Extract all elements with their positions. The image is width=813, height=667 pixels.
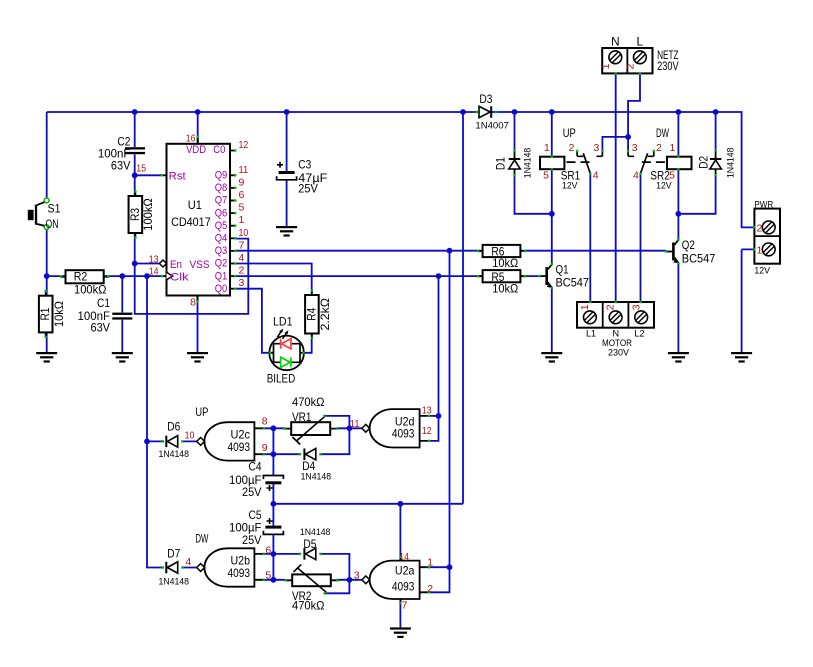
svg-text:11: 11 xyxy=(350,418,360,430)
svg-text:BC547: BC547 xyxy=(682,252,716,266)
svg-text:DW: DW xyxy=(195,532,208,546)
svg-text:2: 2 xyxy=(605,304,617,310)
svg-text:5: 5 xyxy=(669,169,675,181)
svg-text:10kΩ: 10kΩ xyxy=(492,256,518,270)
svg-text:BC547: BC547 xyxy=(556,276,590,290)
svg-text:S1: S1 xyxy=(48,202,61,216)
svg-text:5: 5 xyxy=(543,169,549,181)
svg-text:Q0: Q0 xyxy=(215,283,228,295)
svg-text:7: 7 xyxy=(402,600,408,612)
svg-text:Q7: Q7 xyxy=(215,195,228,207)
svg-text:R4: R4 xyxy=(304,307,318,320)
svg-text:2: 2 xyxy=(239,265,245,277)
svg-text:Q1: Q1 xyxy=(215,270,228,282)
svg-text:4: 4 xyxy=(185,556,191,568)
svg-text:10kΩ: 10kΩ xyxy=(492,281,518,295)
svg-text:L: L xyxy=(637,34,644,48)
svg-text:6: 6 xyxy=(239,189,245,201)
svg-text:1N4148: 1N4148 xyxy=(159,576,190,586)
svg-text:12V: 12V xyxy=(754,265,770,275)
svg-text:UP: UP xyxy=(563,126,576,140)
svg-text:Q2: Q2 xyxy=(215,258,228,270)
svg-text:100kΩ: 100kΩ xyxy=(141,198,155,231)
svg-text:14: 14 xyxy=(149,265,159,277)
svg-text:13: 13 xyxy=(422,405,432,417)
svg-text:16: 16 xyxy=(186,132,196,144)
svg-text:5: 5 xyxy=(265,570,271,582)
svg-text:10: 10 xyxy=(185,429,195,441)
svg-text:U2a: U2a xyxy=(395,563,415,577)
svg-text:2: 2 xyxy=(757,222,763,234)
svg-text:3: 3 xyxy=(632,142,638,154)
svg-text:LD1: LD1 xyxy=(273,314,293,328)
svg-text:D3: D3 xyxy=(479,92,492,106)
svg-text:DW: DW xyxy=(656,126,669,140)
svg-text:15: 15 xyxy=(136,163,146,175)
svg-text:En: En xyxy=(170,259,182,271)
svg-text:7: 7 xyxy=(239,239,245,251)
svg-text:5: 5 xyxy=(239,202,245,214)
svg-text:3: 3 xyxy=(594,142,600,154)
svg-text:1N4148: 1N4148 xyxy=(523,148,533,179)
svg-text:1: 1 xyxy=(427,557,433,569)
svg-text:1: 1 xyxy=(239,214,245,226)
svg-text:12V: 12V xyxy=(656,181,672,191)
svg-text:1N4007: 1N4007 xyxy=(475,121,509,131)
svg-text:U1: U1 xyxy=(188,198,202,212)
svg-text:BILED: BILED xyxy=(267,371,296,385)
svg-text:230V: 230V xyxy=(657,59,679,73)
svg-text:9: 9 xyxy=(262,442,268,454)
svg-text:VDD: VDD xyxy=(186,144,206,156)
svg-text:UP: UP xyxy=(195,405,208,419)
svg-text:VR1: VR1 xyxy=(292,410,312,424)
svg-text:13: 13 xyxy=(149,254,159,266)
svg-text:Q2: Q2 xyxy=(682,238,695,252)
svg-text:N: N xyxy=(612,328,619,338)
svg-text:R1: R1 xyxy=(38,307,52,320)
svg-text:1N4148: 1N4148 xyxy=(301,471,332,481)
svg-text:25V: 25V xyxy=(298,181,318,195)
svg-text:1N4148: 1N4148 xyxy=(159,449,190,459)
svg-text:3: 3 xyxy=(630,304,642,310)
svg-text:CD4017: CD4017 xyxy=(171,215,211,229)
svg-text:3: 3 xyxy=(239,277,245,289)
svg-text:ON: ON xyxy=(46,217,59,231)
svg-text:11: 11 xyxy=(239,164,249,176)
svg-text:25V: 25V xyxy=(242,533,262,547)
svg-text:2: 2 xyxy=(569,142,575,154)
svg-text:8: 8 xyxy=(262,415,268,427)
svg-text:C1: C1 xyxy=(97,296,110,310)
svg-text:230V: 230V xyxy=(608,347,630,357)
svg-text:4093: 4093 xyxy=(392,579,415,593)
svg-text:D1: D1 xyxy=(494,157,508,170)
svg-text:VSS: VSS xyxy=(190,259,210,271)
svg-text:Q6: Q6 xyxy=(215,207,228,219)
svg-text:4: 4 xyxy=(633,169,639,181)
svg-text:1: 1 xyxy=(669,142,675,154)
svg-text:470kΩ: 470kΩ xyxy=(292,395,325,409)
svg-text:63V: 63V xyxy=(111,159,131,173)
svg-text:Clk: Clk xyxy=(170,272,189,284)
svg-text:L1: L1 xyxy=(586,328,596,338)
svg-text:4093: 4093 xyxy=(228,566,251,580)
svg-text:2: 2 xyxy=(427,583,433,595)
svg-text:10: 10 xyxy=(239,227,249,239)
svg-text:12: 12 xyxy=(422,425,432,437)
svg-text:12V: 12V xyxy=(562,181,578,191)
svg-text:2: 2 xyxy=(625,63,637,69)
svg-text:Q1: Q1 xyxy=(556,263,569,277)
svg-text:1: 1 xyxy=(579,304,591,310)
svg-text:Q5: Q5 xyxy=(215,220,228,232)
svg-text:1: 1 xyxy=(757,244,763,256)
svg-text:D5: D5 xyxy=(303,537,316,551)
svg-text:4093: 4093 xyxy=(392,426,415,440)
svg-text:4: 4 xyxy=(593,169,599,181)
svg-text:D7: D7 xyxy=(167,547,180,561)
svg-text:C0: C0 xyxy=(213,144,225,156)
svg-text:L2: L2 xyxy=(634,328,644,338)
svg-text:25V: 25V xyxy=(242,485,262,499)
svg-text:9: 9 xyxy=(239,176,245,188)
svg-text:2: 2 xyxy=(656,142,662,154)
svg-text:6: 6 xyxy=(265,545,271,557)
svg-text:D2: D2 xyxy=(697,156,711,169)
svg-text:Q9: Q9 xyxy=(215,170,228,182)
svg-text:10kΩ: 10kΩ xyxy=(52,301,66,327)
svg-text:4093: 4093 xyxy=(228,440,251,454)
svg-text:1N4148: 1N4148 xyxy=(300,527,331,537)
svg-text:N: N xyxy=(611,34,620,48)
svg-text:4: 4 xyxy=(239,252,245,264)
svg-text:Rst: Rst xyxy=(169,171,186,183)
svg-text:1: 1 xyxy=(544,142,550,154)
svg-text:Q8: Q8 xyxy=(215,182,228,194)
svg-text:63V: 63V xyxy=(91,321,111,335)
svg-text:Q3: Q3 xyxy=(215,245,228,257)
svg-text:8: 8 xyxy=(190,297,196,309)
svg-text:R3: R3 xyxy=(128,208,142,221)
svg-text:1N4148: 1N4148 xyxy=(726,148,736,179)
svg-text:MOTOR: MOTOR xyxy=(602,338,632,348)
svg-text:D6: D6 xyxy=(167,419,180,433)
svg-text:PWR: PWR xyxy=(754,200,773,210)
svg-text:1: 1 xyxy=(600,63,612,69)
svg-text:12: 12 xyxy=(239,139,249,151)
svg-text:470kΩ: 470kΩ xyxy=(292,598,325,612)
svg-text:Q4: Q4 xyxy=(215,233,228,245)
svg-text:2.2kΩ: 2.2kΩ xyxy=(318,298,332,331)
svg-text:3: 3 xyxy=(354,570,360,582)
svg-text:C3: C3 xyxy=(298,157,311,171)
svg-text:100kΩ: 100kΩ xyxy=(74,282,107,296)
